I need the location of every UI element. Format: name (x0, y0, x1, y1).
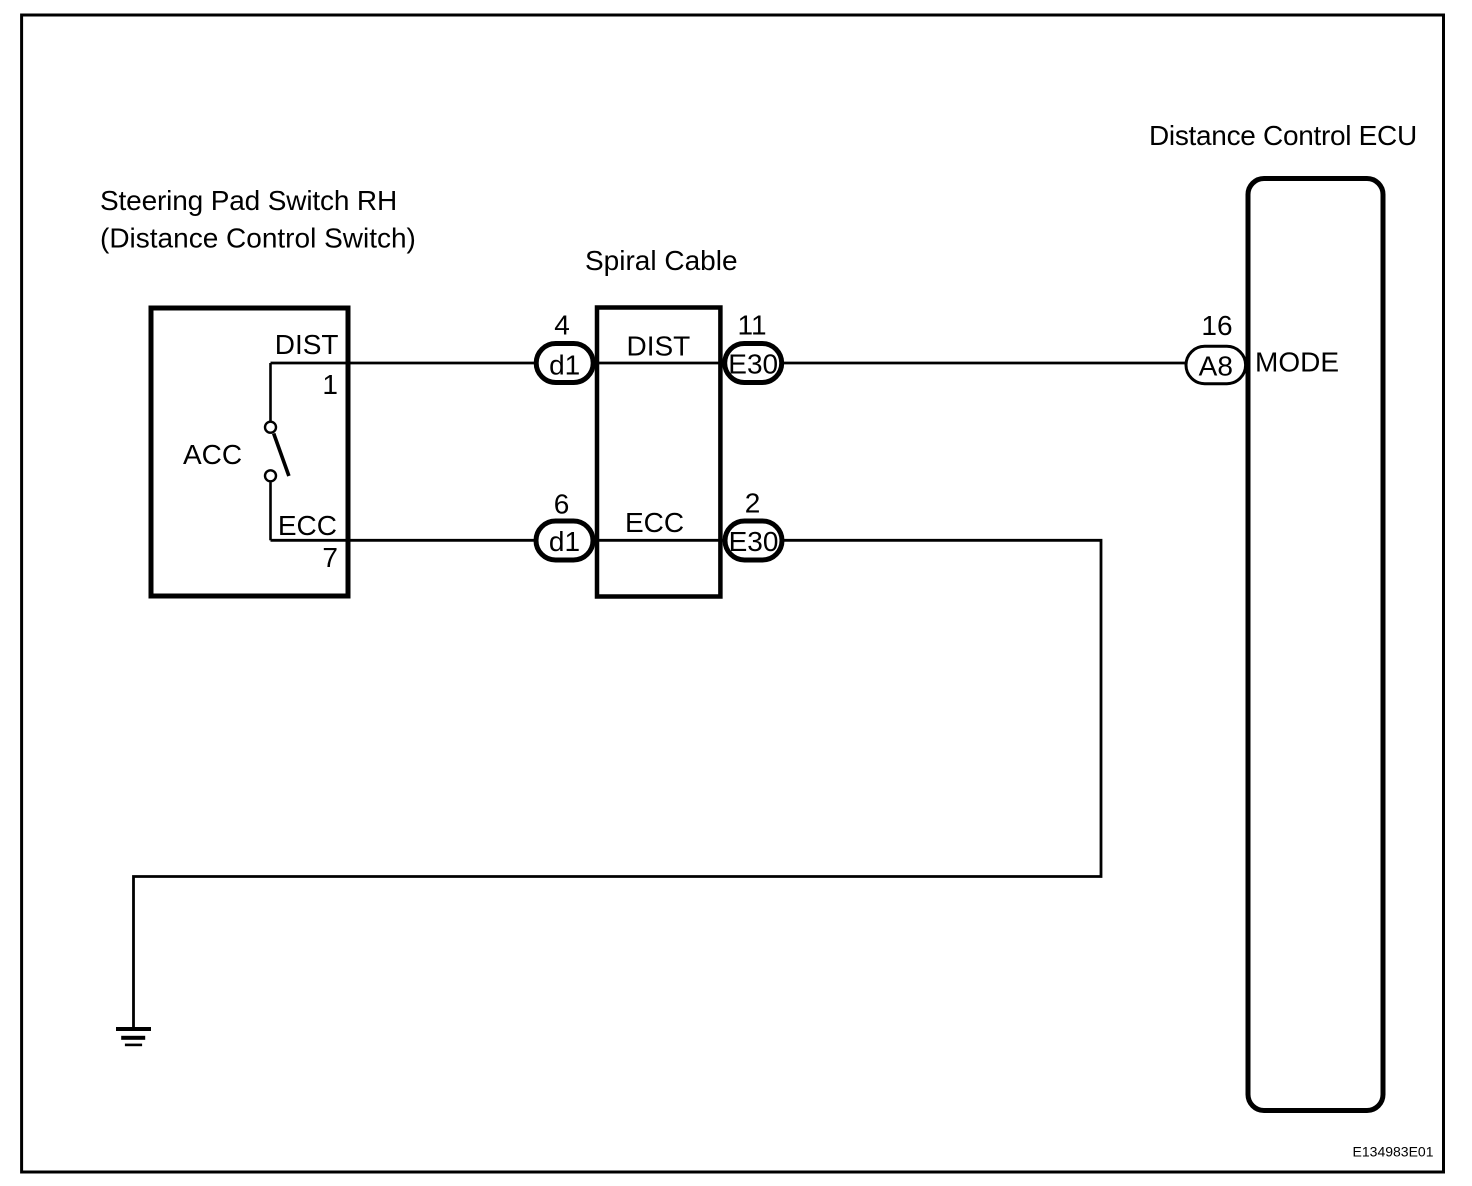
svg-text:Steering Pad Switch RH: Steering Pad Switch RH (100, 185, 397, 216)
svg-text:2: 2 (745, 488, 761, 519)
svg-text:6: 6 (554, 489, 570, 520)
svg-text:1: 1 (322, 369, 338, 400)
svg-text:A8: A8 (1199, 351, 1233, 382)
ground (116, 1027, 151, 1046)
connector E30 pin 11 (725, 310, 782, 383)
svg-text:DIST: DIST (275, 329, 339, 360)
svg-text:4: 4 (554, 310, 570, 341)
svg-text:Distance Control ECU: Distance Control ECU (1149, 120, 1417, 151)
svg-text:d1: d1 (549, 350, 580, 381)
svg-text:d1: d1 (549, 526, 580, 557)
connector d1 pin 6 (536, 489, 593, 561)
connector d1 pin 4 (536, 310, 593, 383)
svg-text:ECC: ECC (278, 510, 337, 541)
switch box: Steering Pad Switch RH (151, 308, 348, 596)
connector E30 pin 2 (725, 488, 782, 561)
svg-text:16: 16 (1201, 310, 1232, 341)
svg-text:E30: E30 (729, 526, 779, 557)
svg-text:Spiral Cable: Spiral Cable (585, 245, 738, 276)
Distance Control ECU box (1248, 179, 1383, 1111)
svg-text:7: 7 (322, 542, 338, 573)
svg-text:ACC: ACC (183, 439, 242, 470)
wire DIST: switch to ECU pin A8 (271, 362, 1217, 365)
svg-text:DIST: DIST (627, 331, 691, 362)
connector A8 pin 16 (1186, 310, 1246, 384)
svg-text:11: 11 (737, 310, 766, 341)
wire ECC: switch to E30 then to ground (134, 540, 1102, 1028)
svg-text:(Distance Control Switch): (Distance Control Switch) (100, 223, 416, 254)
svg-text:E30: E30 (728, 349, 778, 380)
svg-text:MODE: MODE (1255, 347, 1339, 378)
svg-text:ECC: ECC (625, 507, 684, 538)
switch ACC contact (265, 363, 289, 540)
spiral cable box (597, 308, 720, 597)
svg-text:E134983E01: E134983E01 (1353, 1144, 1434, 1160)
